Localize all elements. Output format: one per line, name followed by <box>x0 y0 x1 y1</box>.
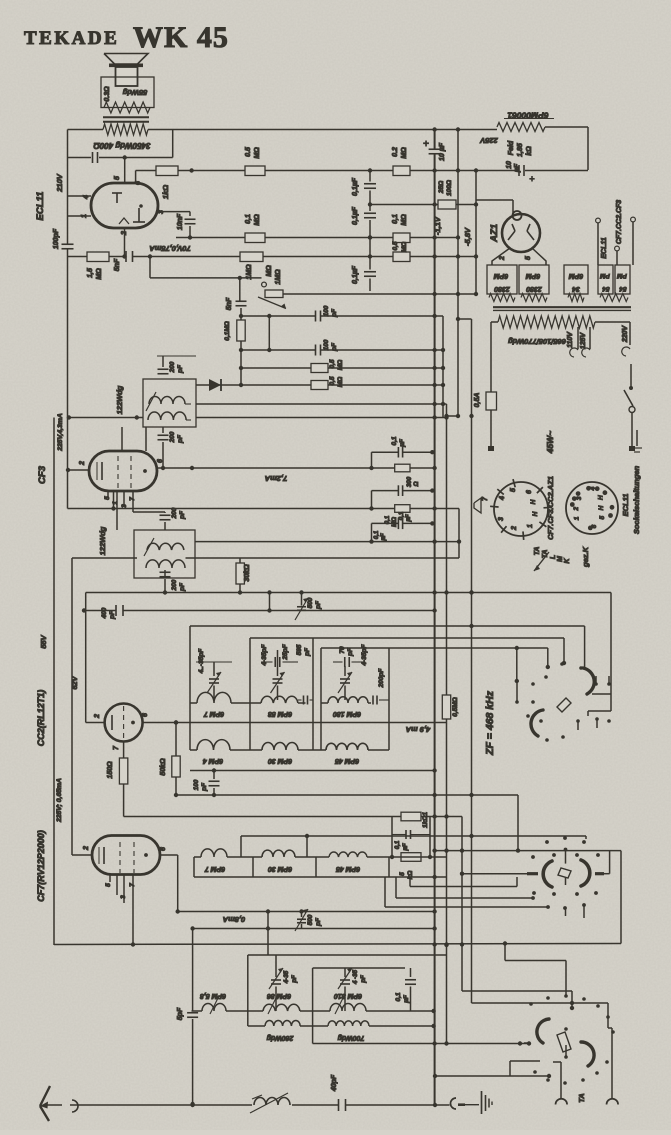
wire <box>68 469 89 471</box>
resistor 0.5MΩ <box>311 364 328 373</box>
wire bus main <box>434 130 436 150</box>
svg-text:pF: pF <box>109 610 116 620</box>
svg-text:pF: pF <box>315 600 322 610</box>
svg-text:1,85: 1,85 <box>517 143 524 157</box>
svg-text:1kΩ: 1kΩ <box>161 185 170 199</box>
svg-text:0,1µF: 0,1µF <box>352 177 359 196</box>
capacitor 25pF <box>262 661 273 663</box>
tube CC2 <box>105 704 143 742</box>
svg-text:0,5MΩ: 0,5MΩ <box>452 697 459 717</box>
svg-text:122Wdg: 122Wdg <box>115 385 124 414</box>
coil 260Wdg <box>265 1021 300 1027</box>
svg-text:+: + <box>423 139 429 150</box>
svg-text:MΩ: MΩ <box>254 214 261 226</box>
svg-text:3: 3 <box>576 496 583 500</box>
svg-text:6РМ: 6РМ <box>569 272 584 279</box>
wire <box>68 129 104 131</box>
wire <box>86 722 105 724</box>
capacitor 10nF <box>185 218 196 220</box>
resistor 0.1M row508 <box>395 505 410 513</box>
wire <box>124 158 126 184</box>
resistor 0.5MΩ <box>393 252 410 262</box>
wire row 541 <box>195 541 459 543</box>
svg-text:10 µF: 10 µF <box>439 142 446 161</box>
svg-text:Sockelschaltungen: Sockelschaltungen <box>632 465 641 534</box>
wire bus <box>461 817 463 992</box>
wire row <box>313 1043 529 1045</box>
wire <box>532 248 546 265</box>
tube CF7 <box>92 836 160 875</box>
resistor 0.5MΩ <box>311 381 328 390</box>
svg-text:25pF: 25pF <box>282 643 289 660</box>
wire <box>241 835 586 837</box>
svg-text:pF: pF <box>201 782 208 792</box>
svg-text:200pF: 200pF <box>378 668 385 689</box>
wafer switch 2 feeds <box>435 850 621 852</box>
coil 6РМ45 <box>326 743 368 750</box>
winding 6РМ2380 b <box>519 265 549 294</box>
svg-text:4-35: 4-35 <box>283 970 290 984</box>
svg-text:5: 5 <box>114 176 121 180</box>
wire <box>475 171 477 295</box>
wire row <box>196 403 447 405</box>
svg-text:µF: µF <box>405 514 412 523</box>
capacitor 0.1µF a2 <box>372 451 399 453</box>
wire row <box>86 592 611 594</box>
wafer switch 1 feeds <box>584 626 586 667</box>
svg-text:µF: µF <box>399 438 406 448</box>
resistor 0.3ohm 55Wdg <box>101 77 154 108</box>
svg-text:5nF: 5nF <box>114 258 121 271</box>
svg-text:0,5: 0,5 <box>392 241 399 250</box>
svg-text:110V: 110V <box>567 331 574 348</box>
svg-text:pF: pF <box>177 364 184 374</box>
svg-text:2380: 2380 <box>526 285 543 292</box>
capacitor 200pF <box>160 514 171 516</box>
svg-text:300: 300 <box>406 476 413 487</box>
svg-text:400: 400 <box>101 607 108 619</box>
capacitor 0.1µF a <box>364 183 376 185</box>
svg-text:25Ω: 25Ω <box>438 181 445 194</box>
wire row <box>190 770 435 772</box>
svg-text:TA: TA <box>577 1093 586 1102</box>
capacitor 0.1µF c2 <box>372 522 399 524</box>
wafer 2 contact arc a <box>543 861 552 887</box>
trimmer 4..35pF b <box>277 650 279 676</box>
wire <box>72 854 92 856</box>
wafer 1 rotor <box>557 698 571 712</box>
svg-text:6РМ 7: 6РМ 7 <box>204 865 225 872</box>
svg-text:MΩ: MΩ <box>96 268 103 280</box>
wire row <box>69 417 143 419</box>
svg-text:6РМ 180: 6РМ 180 <box>333 710 361 717</box>
wire <box>492 248 510 265</box>
wire <box>472 1002 609 1004</box>
svg-text:6РМ 7: 6РМ 7 <box>203 710 224 717</box>
trimmer 500pF <box>301 912 303 918</box>
svg-text:pF: pF <box>315 917 322 927</box>
fuse 0.5A <box>486 392 497 410</box>
svg-text:2: 2 <box>83 846 90 851</box>
svg-text:70V,0,75mA: 70V,0,75mA <box>149 244 190 253</box>
svg-text:MΩ: MΩ <box>391 517 398 527</box>
svg-text:5pF: 5pF <box>177 1007 184 1020</box>
wire <box>239 278 241 302</box>
wire <box>143 722 190 724</box>
svg-text:2: 2 <box>573 507 580 512</box>
resistor 150Ω <box>123 742 125 759</box>
svg-text:-5,8V: -5,8V <box>463 227 472 246</box>
svg-text:1MΩ: 1MΩ <box>275 269 282 285</box>
svg-text:M: M <box>557 556 564 562</box>
svg-text:2: 2 <box>499 256 506 261</box>
svg-text:H: H <box>530 499 537 504</box>
svg-text:MΩ: MΩ <box>401 242 408 253</box>
svg-text:0,5A: 0,5A <box>474 393 481 408</box>
electrolytic 10µF <box>429 148 441 150</box>
svg-text:100: 100 <box>193 779 200 790</box>
svg-text:4 -35: 4 -35 <box>352 969 359 985</box>
wire corner 459 <box>458 509 460 559</box>
svg-text:30kΩ: 30kΩ <box>244 564 251 582</box>
svg-text:5: 5 <box>599 516 606 520</box>
wire <box>268 316 270 350</box>
svg-text:pF: pF <box>331 342 338 352</box>
svg-text:pF: pF <box>331 308 338 318</box>
svg-text:10: 10 <box>506 161 513 169</box>
svg-text:6РМ: 6РМ <box>494 272 509 279</box>
winding РМ54 <box>598 265 613 294</box>
tap 220V <box>622 347 630 356</box>
output transformer core <box>103 116 149 118</box>
wire row 508 <box>68 508 460 510</box>
resistor 25Ω 100Ω <box>438 200 456 209</box>
capacitor 5nF <box>236 300 247 302</box>
svg-text:TA: TA <box>534 547 541 556</box>
svg-text:0.3Ω: 0.3Ω <box>104 86 111 102</box>
svg-text:AZ1: AZ1 <box>489 224 500 243</box>
wire bus <box>446 404 448 695</box>
svg-text:TEKADE: TEKADE <box>24 28 119 49</box>
electrolytic 10µF h <box>518 165 520 176</box>
svg-text:4..-35pF: 4..-35pF <box>198 648 205 675</box>
trimmer 4..35pF e <box>344 968 346 977</box>
wire <box>157 467 435 469</box>
svg-text:5: 5 <box>399 872 406 876</box>
winding 6РМ34 <box>564 265 588 294</box>
capacitor 200pF <box>162 356 164 367</box>
IF transformer 1 122Wdg <box>143 379 196 427</box>
antenna coil <box>254 1098 290 1105</box>
heater terminals <box>597 223 599 265</box>
svg-text:ECL11: ECL11 <box>601 237 608 258</box>
capacitor 0.1µF (cf7 out) <box>410 968 412 977</box>
resistor 0.2MΩ <box>393 166 410 176</box>
svg-text:2380: 2380 <box>494 285 511 292</box>
wire <box>68 195 92 197</box>
svg-text:5: 5 <box>525 256 532 260</box>
coil bank boxes <box>193 857 195 877</box>
svg-text:1,5: 1,5 <box>87 268 94 278</box>
svg-text:225V: 225V <box>479 136 499 145</box>
wafer 2 rotor <box>558 868 571 878</box>
terminal TA a <box>560 1062 562 1098</box>
svg-text:0,8mA: 0,8mA <box>223 915 246 924</box>
wire <box>391 817 393 858</box>
capacitor 595pF <box>303 696 305 705</box>
capacitor <box>68 157 92 159</box>
svg-text:1: 1 <box>527 524 534 528</box>
svg-text:H: H <box>598 495 605 500</box>
svg-text:6РМ 5,8: 6РМ 5,8 <box>200 992 226 999</box>
svg-text:CF7.CF3.CC2.AZ1: CF7.CF3.CC2.AZ1 <box>546 476 555 540</box>
wafer switch 3 feeds <box>524 1042 529 1044</box>
svg-text:0,1µF: 0,1µF <box>352 206 359 225</box>
svg-text:6РМ 30: 6РМ 30 <box>268 865 292 872</box>
wafer 2 rotor line <box>462 873 527 875</box>
wire <box>267 912 269 956</box>
svg-text:CC2(RL12T1): CC2(RL12T1) <box>36 690 46 747</box>
capacitor 0.1µF c <box>364 271 376 273</box>
wire bus <box>457 130 459 417</box>
svg-text:125V: 125V <box>580 332 587 350</box>
coil bank box2 <box>250 637 564 639</box>
wire <box>124 228 126 257</box>
capacitor 5nF <box>125 251 127 262</box>
capacitor 40pF <box>338 1099 340 1111</box>
coil 6РМ180 <box>328 697 368 703</box>
svg-text:0.2: 0.2 <box>392 147 399 157</box>
svg-text:150Ω: 150Ω <box>107 761 114 779</box>
svg-text:1kΩ1: 1kΩ1 <box>422 812 429 828</box>
svg-text:pF: pF <box>179 582 186 592</box>
resistor 5kΩ <box>401 853 421 862</box>
wire row <box>54 944 621 945</box>
wire <box>149 257 151 278</box>
tube ECL11 <box>91 183 158 228</box>
svg-text:34: 34 <box>572 285 580 292</box>
mains switch <box>629 386 633 390</box>
svg-text:µF: µF <box>514 163 521 173</box>
svg-text:0,5: 0,5 <box>329 359 336 368</box>
coil 700Wdg <box>328 1021 369 1026</box>
svg-text:0,1: 0,1 <box>392 214 399 224</box>
terminal TA b <box>611 1028 613 1098</box>
wafer 3 rotor <box>557 1032 571 1052</box>
socket 2 pins <box>570 502 575 507</box>
wire row <box>136 170 518 172</box>
svg-text:ECL11: ECL11 <box>35 192 46 221</box>
capacitor 200pF <box>164 570 166 578</box>
svg-text:225V,4,3mA: 225V,4,3mA <box>57 413 64 452</box>
resistor 1.5MΩ <box>87 252 109 262</box>
jack <box>451 1098 456 1109</box>
svg-text:MΩ: MΩ <box>337 360 344 371</box>
wire 968 <box>313 967 405 969</box>
tube CF3 <box>89 451 157 491</box>
resistor 0.5MΩ v <box>442 695 450 719</box>
trimmer 500pF <box>301 593 303 606</box>
svg-text:5: 5 <box>105 883 112 887</box>
wire <box>158 211 190 213</box>
wire row <box>193 928 435 930</box>
svg-text:6РМ 58: 6РМ 58 <box>268 710 292 717</box>
svg-text:ECL11: ECL11 <box>621 494 630 517</box>
svg-text:3450Wdg 400Ω: 3450Wdg 400Ω <box>93 141 151 150</box>
wafer 1 contact arc a <box>583 668 594 694</box>
resistor 30kΩ <box>239 558 241 563</box>
output transformer primary 3450Wdg 400Ω <box>103 124 148 135</box>
svg-text:100: 100 <box>323 305 330 316</box>
svg-text:Ω: Ω <box>413 481 420 487</box>
wire <box>369 171 371 182</box>
svg-text:45W~: 45W~ <box>545 431 555 454</box>
capacitor 70pF <box>333 661 343 663</box>
svg-text:500: 500 <box>307 597 314 608</box>
svg-text:6: 6 <box>157 459 164 463</box>
IF block top wire <box>248 954 447 956</box>
coil bank box1 <box>190 625 585 627</box>
svg-text:4,9 mA: 4,9 mA <box>406 725 432 734</box>
capacitor 100pF <box>315 345 317 356</box>
coil row 1011 <box>226 1010 263 1012</box>
wire row <box>124 816 462 818</box>
svg-text:4-35pF: 4-35pF <box>361 643 368 666</box>
resistor 0.1MΩ v <box>237 320 245 341</box>
svg-text:gez.K: gez.K <box>581 546 590 568</box>
wire row <box>241 349 316 351</box>
left bus 210V <box>67 130 69 244</box>
svg-text:kΩ: kΩ <box>526 146 533 156</box>
capacitor 0.1µF <box>392 834 406 836</box>
svg-text:MΩ: MΩ <box>337 377 344 388</box>
resistor 1MΩ <box>240 252 263 262</box>
wire <box>269 593 271 611</box>
svg-text:µF: µF <box>403 994 410 1004</box>
svg-text:0.5: 0.5 <box>245 147 252 157</box>
svg-text:L: L <box>550 555 557 559</box>
capacitor 5pF <box>187 1012 198 1014</box>
wire row <box>68 256 127 258</box>
wafer 2 contacts <box>545 840 549 844</box>
capacitor 0.1µF b <box>364 212 376 214</box>
svg-text:pF: pF <box>347 647 354 657</box>
svg-text:MΩ: MΩ <box>401 214 408 226</box>
svg-text:pF: pF <box>304 647 311 657</box>
svg-text:TA: TA <box>542 550 549 559</box>
svg-text:54: 54 <box>619 285 627 292</box>
svg-text:70: 70 <box>339 646 346 654</box>
resistor 0.5MΩ <box>245 166 265 176</box>
svg-text:6РМ 45: 6РМ 45 <box>336 865 360 872</box>
svg-text:6: 6 <box>142 713 149 717</box>
wire <box>85 593 87 723</box>
wire <box>504 944 506 961</box>
capacitor 100pF <box>315 311 317 322</box>
svg-text:CF3: CF3 <box>37 465 48 484</box>
wire <box>71 558 73 855</box>
svg-text:6РМ 30: 6РМ 30 <box>268 757 292 764</box>
resistor 1kΩ1 <box>401 812 421 821</box>
svg-text:6РМ 45: 6РМ 45 <box>335 757 359 764</box>
svg-text:0,5: 0,5 <box>329 376 336 385</box>
svg-text:+: + <box>529 174 534 184</box>
wire bus <box>471 319 473 1003</box>
mains terminal <box>636 430 638 446</box>
wire row <box>176 237 458 239</box>
wafer 3 contact arc a <box>537 1019 549 1043</box>
svg-text:pF: pF <box>360 975 367 984</box>
svg-text:100Ω: 100Ω <box>446 180 453 196</box>
wire bus <box>442 316 444 418</box>
svg-text:55V: 55V <box>39 634 48 648</box>
svg-text:2: 2 <box>79 461 86 466</box>
winding 6РМ2380 a <box>487 265 517 294</box>
socket speaker sym <box>474 498 481 513</box>
band arrow <box>534 552 549 571</box>
capacitor 0.1µF b2 <box>372 490 399 492</box>
svg-text:210V: 210V <box>55 173 64 193</box>
svg-text:260Wdg: 260Wdg <box>266 1034 295 1041</box>
svg-text:595: 595 <box>296 644 303 655</box>
wire <box>135 171 137 184</box>
wire row <box>283 293 476 295</box>
svg-text:7,2mA: 7,2mA <box>265 474 288 483</box>
wire <box>553 1061 561 1063</box>
capacitor 400pF <box>115 605 117 616</box>
svg-text:200: 200 <box>169 361 176 373</box>
coil 6РМ58 <box>261 696 298 703</box>
svg-text:H: H <box>598 505 605 510</box>
wafer 3 contact arc b <box>581 1042 594 1066</box>
wire <box>160 854 178 856</box>
svg-text:6: 6 <box>160 847 167 851</box>
wire row <box>196 384 443 386</box>
svg-text:62V: 62V <box>70 675 79 689</box>
bottom wire <box>44 1104 62 1106</box>
svg-text:0,1µF: 0,1µF <box>352 265 359 284</box>
svg-text:0,1: 0,1 <box>391 436 398 445</box>
svg-text:4-35pF: 4-35pF <box>261 643 268 666</box>
mains transformer core <box>493 306 631 308</box>
svg-text:MΩ: MΩ <box>266 265 273 277</box>
resistor 1kΩ <box>156 166 178 176</box>
wafer 1 contact arc b <box>531 710 543 736</box>
svg-text:MΩ: MΩ <box>401 147 408 159</box>
wire <box>585 836 587 839</box>
svg-text:0,1: 0,1 <box>395 992 402 1001</box>
coil 6РМ4 <box>197 740 230 750</box>
svg-text:0,1: 0,1 <box>394 840 401 849</box>
wire row 558r <box>186 557 460 559</box>
socket CF7 CF3 CC2 AZ1 <box>494 482 548 536</box>
tube AZ1 <box>502 214 540 252</box>
svg-text:700Wdg: 700Wdg <box>337 1034 365 1041</box>
wire row <box>241 315 316 317</box>
coil row <box>194 856 201 858</box>
svg-text:4: 4 <box>589 486 596 491</box>
svg-text:6РМ 310: 6РМ 310 <box>334 992 362 999</box>
svg-text:6РМ: 6РМ <box>526 272 541 279</box>
svg-text:6: 6 <box>526 490 533 494</box>
svg-text:10nF: 10nF <box>177 213 184 230</box>
svg-text:54: 54 <box>602 285 610 292</box>
field winding Feld 1,85kΩ (6РМ00061) <box>497 123 545 132</box>
loudspeaker <box>104 54 148 65</box>
wafer 2 contact arc b <box>581 860 590 886</box>
socket ECL11 <box>566 482 618 534</box>
wire <box>121 427 123 451</box>
